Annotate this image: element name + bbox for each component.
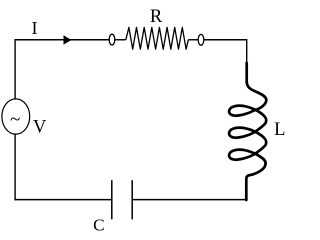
wire: resistor stub left (ellipse to zigzag) (115, 39, 126, 41)
capacitor C left plate (111, 180, 113, 219)
svg-text:C: C (93, 216, 104, 235)
resistor R1 left terminal ellipse (109, 34, 115, 45)
resistor R1 right terminal ellipse (198, 34, 204, 45)
svg-text:R: R (150, 7, 163, 27)
svg-text:I: I (32, 18, 38, 38)
wire: top-left horizontal from corner to resistor left terminal (15, 39, 109, 41)
wire: zigzag right end to right terminal stub (188, 39, 198, 41)
wire: bottom horizontal left segment (to capacitor) (15, 199, 111, 201)
svg-text:~: ~ (10, 109, 20, 130)
svg-text:L: L (274, 120, 285, 140)
AC source V ellipse (2, 99, 30, 134)
wire: bottom horizontal right segment (capacitor to bottom-right corner) (132, 199, 247, 201)
wire: right vertical (top corner to inductor) (246, 39, 248, 65)
wire: left vertical (top corner to source top) (14, 39, 16, 99)
capacitor C right plate (131, 180, 133, 219)
resistor R1 zigzag (126, 27, 189, 49)
inductor L coil (229, 63, 266, 200)
wire: left vertical (source bottom to bottom corner) (14, 134, 16, 200)
wire: resistor right terminal to top-right corner (204, 39, 247, 41)
svg-text:V: V (33, 118, 47, 138)
current arrow on top wire (64, 35, 72, 44)
